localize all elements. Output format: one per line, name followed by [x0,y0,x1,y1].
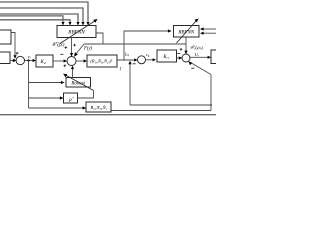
long feedback wire across bottom [0,114,216,116]
wire input x3 [0,14,78,22]
wire Krl to summer S4 [177,57,180,59]
plus sign at node A (upper) [16,52,19,55]
wire S1 output to Kd [25,60,35,62]
minus sign left of S2 [60,53,63,55]
wire input x4 [0,16,63,22]
branch to robust block [29,82,62,84]
wire S2 output to transform box [76,60,85,62]
plant box (right edge, cut off) [211,50,220,64]
plus sign bottom input of S2 [64,65,67,68]
branch rail from node B down left side [28,61,30,109]
svg-text:Ur: Ur [195,52,200,58]
gain block Kd [36,55,53,67]
right RBFNN U2 [174,26,200,38]
wire robust block up into S2 [72,69,74,78]
wire input x2 [0,8,83,22]
svg-text:RBFNN: RBFNN [177,30,194,35]
feedback wire y=109 from rail to estimator box [111,110,211,112]
rho estimator box [64,93,78,103]
reference box (top-left, cut off) [0,30,11,44]
arrowheads into RBFNN left box top [61,22,64,26]
wire input x1 [0,2,88,22]
wire rho output to robust diagonal [78,91,94,99]
adaptive diagonal arrow through left RBFNN [60,19,98,44]
minus sign for diagonal input of S4 [191,67,194,69]
wire S3 to Krl [146,59,154,61]
summer S2 [67,57,76,66]
adaptive diagonal arrow through robust block [63,74,94,91]
wire Kd to summer S2 [53,60,65,62]
svg-text:elr: elr [146,52,151,58]
plus sign top of S4 [180,48,183,51]
wire from top-left box down to summing node A [11,33,15,56]
wire bus down into S4 [185,44,187,51]
svg-text:θ̂Tζ(x): θ̂Tζ(x) [53,41,65,48]
wire S4 output U_r to plant [190,56,209,58]
estimator box R,N,N [86,102,111,112]
svg-text:Ird: Ird [124,51,130,57]
svg-text:r̄i: r̄i [28,54,31,60]
plant output rail down right side [210,75,212,111]
wire left RBFNN right edge to bus [96,33,103,44]
RBFNN U1 (left neural network block) [57,26,96,38]
minus sign left of S4 [177,53,180,55]
diagonal feedback into S4 bottom [191,63,212,75]
gain block Krl [157,50,177,62]
transform box (R,N,N)^T [87,55,117,67]
feedback wire y=104 from rail to l line [130,104,211,106]
summer S4 [182,54,190,62]
F(y) diagonal wire into S2 [76,44,85,55]
minus sign for l feedback [133,63,136,65]
branch up to right RBFNN input [124,31,168,60]
input wires into right RBFNN from right edge [203,28,217,30]
wire input x5 [0,20,70,22]
svg-text:θ̂Tiζi(xi): θ̂Tiζi(xi) [191,44,204,50]
feedback l wire up into forward path [129,64,131,106]
branch to rho estimator [29,97,61,99]
summer S1 [16,56,24,64]
svg-text:Krl: Krl [162,55,168,60]
forward wire transform box to summer S3 [117,59,135,61]
adaptive diagonal arrow through right RBFNN [177,19,199,44]
svg-text:l̄: l̄ [119,66,122,71]
node A junction dot [13,59,15,61]
svg-text:F(y): F(y) [83,47,93,52]
svg-text:Kd: Kd [39,60,45,65]
wire RBFNN output theta zeta down into S2 [71,38,73,54]
plus sign for top input of S2 [65,46,68,49]
plus sign for diagonal input of S2 [73,44,76,47]
wire right RBFNN bottom output to bus [185,37,187,44]
wire from mid-left box into summer S1 [10,60,14,62]
node B junction dot [27,59,29,61]
compensation bus wire y=44 [84,43,186,45]
robust block [66,78,91,88]
summer S3 [138,56,146,64]
branch to estimator box [29,107,84,109]
reference box (mid-left, cut off) [0,52,10,64]
